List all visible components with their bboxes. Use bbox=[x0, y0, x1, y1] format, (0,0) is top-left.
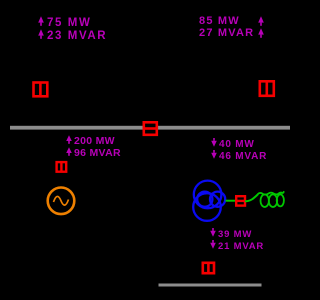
wire breaker to inductor (green) bbox=[245, 194, 258, 201]
label Q2: 27 MVAR up-arrow right bbox=[199, 28, 254, 39]
wire transformer to breaker (green) bbox=[226, 200, 237, 202]
label P4: 40 MW down-arrow bbox=[211, 138, 255, 150]
breaker CB1 (left load) bbox=[34, 83, 48, 97]
inductor L1 (green coil) bbox=[258, 191, 285, 207]
label P1: 75 MW up-arrow bbox=[38, 16, 91, 30]
label P5: 39 MW down-arrow bbox=[210, 228, 252, 240]
breaker CB3 (center, on main bus) bbox=[144, 122, 157, 135]
label Q4: 46 MVAR down-arrow bbox=[211, 150, 267, 162]
breaker CB5 (line breaker) bbox=[236, 196, 245, 205]
bus B1 main horizontal busbar bbox=[10, 126, 290, 130]
generator G1 (orange circle with sine) bbox=[48, 188, 75, 215]
bus B2 bottom busbar bbox=[159, 284, 262, 287]
breaker CB4 (generator) bbox=[57, 162, 67, 172]
label P3: 200 MW up-arrow bbox=[66, 135, 115, 147]
breaker CB6 (bottom load) bbox=[203, 263, 214, 273]
label Q5: 21 MVAR down-arrow bbox=[210, 240, 264, 252]
transformer T1 (blue circles) bbox=[193, 181, 225, 221]
breaker CB2 (right load) bbox=[260, 81, 274, 96]
label Q3: 96 MVAR up-arrow bbox=[66, 147, 121, 159]
label Q1: 23 MVAR up-arrow bbox=[38, 29, 107, 43]
label P2: 85 MW up-arrow right bbox=[199, 16, 240, 27]
